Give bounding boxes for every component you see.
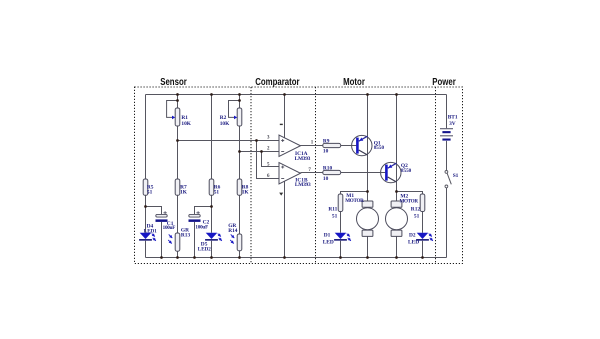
wire D2 to ground rail [422,241,424,258]
wire M2 node to R12 [397,192,423,195]
svg-text:10: 10 [323,176,329,182]
wire ground bottom rail [146,257,447,259]
photoresistor R13 [168,228,190,252]
svg-text:R9: R9 [323,138,330,144]
potentiometer R2 [220,101,242,128]
junction top rail / IC1 V+ [283,93,286,96]
resistor R5 [143,179,154,196]
wire switch to ground rail [446,188,448,258]
junction M2 / R12 [395,190,398,193]
junction ground / R14 [238,256,241,259]
wire left drop to R5 [145,95,147,180]
junction R1 wiper loop [176,99,179,102]
wire tap2 to IC1A pin2 [240,151,280,153]
junction ground / M2 [395,256,398,259]
wire D5 to ground rail [211,241,213,258]
LED D1 [323,233,351,246]
svg-text:1K: 1K [180,190,188,196]
switch S1 [445,171,459,188]
wire Q1 emitter/collector [367,95,369,202]
svg-text:LED2: LED2 [198,247,211,253]
svg-text:LM393: LM393 [295,156,311,162]
junction pin2/pin5 branch [260,150,263,153]
potentiometer R1 [167,101,192,128]
junction ground / R13 [176,256,179,259]
wire M2 to ground rail [396,236,398,257]
svg-text:10K: 10K [220,121,230,127]
svg-text:D2: D2 [409,233,416,239]
wire R10 to Q2 base [341,172,386,174]
wire Q2 emitter/collector [396,95,398,202]
wire IC1A out to R9 [301,145,323,147]
capacitor C1 [156,211,176,231]
wire R13 to ground rail [177,251,179,257]
op-amp IC1A [267,135,314,162]
svg-text:R12: R12 [411,206,421,212]
wire top rail to R1 [177,95,179,109]
resistor R12 [411,194,425,219]
IC1A V+ marker [280,123,283,125]
svg-text:1K: 1K [242,190,250,196]
svg-text:Motor: Motor [343,76,365,87]
wire R11 to D1 [340,212,342,233]
svg-text:51: 51 [332,213,338,219]
svg-text:S1: S1 [453,173,459,179]
wire R1 to R7 (tap) [177,126,179,179]
resistor R6 [209,179,220,196]
svg-text:LED: LED [408,239,419,245]
sheet border (dashed) [135,87,463,264]
resistor R11 [328,194,342,219]
label Sensor [160,76,187,87]
divider Sensor/Comparator [250,87,252,264]
svg-text:R14: R14 [228,228,238,234]
junction ground / C2 [193,256,196,259]
junction top rail / Q1 emitter [366,93,369,96]
LED D4 [139,223,157,241]
svg-text:R10: R10 [323,166,333,172]
junction top rail / R1 [176,93,179,96]
wire R7 to R13 [177,195,179,233]
wire rail to battery [446,95,448,129]
wire branch to IC1B pin5 [262,152,280,167]
svg-text:LM393: LM393 [295,182,311,188]
svg-text:Power: Power [432,76,456,87]
svg-text:D1: D1 [324,233,331,239]
svg-text:51: 51 [214,190,220,196]
op-amp IC1B [267,162,311,188]
junction top rail / R6 [210,93,213,96]
resistor R8 [237,179,249,196]
wire top rail to R6 [211,95,213,180]
divider Comparator/Motor [315,87,317,264]
svg-text:10: 10 [323,149,329,155]
LED D2 [408,233,433,246]
svg-text:R11: R11 [328,206,337,212]
wire D1 to ground rail [340,241,342,258]
svg-text:BT1: BT1 [448,115,458,121]
wire node A to C1 [146,207,162,215]
junction pin3/pin6 branch [255,139,258,142]
junction ground / D1 [339,256,342,259]
capacitor C2 [189,211,210,231]
label Motor [343,76,365,87]
junction node B / C2 [210,205,213,208]
junction ground / C1 [160,256,163,259]
svg-text:51: 51 [147,190,153,196]
svg-text:Comparator: Comparator [255,76,300,87]
svg-text:100uF: 100uF [163,225,176,231]
junction tap2 / pin2 wire [238,150,241,153]
divider Motor/Power [435,87,437,264]
wire R12 to D2 [422,212,424,233]
junction ground / M1 [366,256,369,259]
wire IC1B V- pin [284,181,286,257]
battery BT1 [440,115,458,141]
wire R14 to ground rail [239,251,241,258]
wire M1 node to R11 [341,192,368,195]
wire R5 to D4 node [145,195,147,233]
junction tap1 / pin3 wire [176,139,179,142]
wire node B to C2 [195,207,212,215]
junction top rail / R2 [238,93,241,96]
svg-text:R13: R13 [181,232,191,238]
LED D5 [198,233,222,253]
junction top rail / Q2 emitter [395,93,398,96]
svg-text:100uF: 100uF [195,225,208,231]
wire C1 minus to ground rail [161,222,163,258]
svg-text:3V: 3V [449,121,456,127]
transistor Q2 [381,162,412,182]
wire C2 minus to ground rail [194,222,196,258]
svg-text:MOTOR: MOTOR [345,198,364,204]
junction M1 / R11 [366,190,369,193]
svg-text:8550: 8550 [374,145,385,151]
wire R2 to R8 (tap) [239,126,241,179]
wire M1 to ground rail [367,236,369,257]
wire tap1 to IC1A pin3 [178,140,280,142]
IC1B V- marker [279,193,283,196]
resistor R10 [323,166,341,182]
wire D4 to ground rail [145,241,147,258]
svg-text:51: 51 [414,213,420,219]
wire IC1B out to R10 [301,172,323,174]
wire R8 to R14 [239,195,241,234]
svg-text:8550: 8550 [401,168,412,174]
svg-text:MOTOR: MOTOR [400,199,419,205]
wire branch to IC1B pin6 [257,141,280,179]
wire battery to switch [446,141,448,171]
motor M1 [345,193,378,236]
wire R6 to D5 node [211,195,213,233]
wire IC1A V+ pin [284,95,286,138]
wire top rail to R2 [239,95,241,109]
junction ground / D2 [421,256,424,259]
wire R9 to Q1 base [341,145,357,147]
resistor R9 [323,138,341,154]
wire +V top rail [146,94,447,96]
svg-text:LED: LED [323,239,334,245]
svg-text:Sensor: Sensor [160,76,187,87]
transistor Q1 [352,135,385,155]
svg-text:LED1: LED1 [144,228,157,234]
resistor R7 [175,179,188,196]
junction ground / IC1 V- [283,256,286,259]
photoresistor R14 [228,223,242,251]
svg-text:10K: 10K [181,121,191,127]
label Power [432,76,456,87]
motor M2 [386,194,419,237]
junction node A / C1 [144,205,147,208]
label Comparator [255,76,300,87]
junction R2 wiper loop [238,99,241,102]
junction ground / D5 [210,256,213,259]
